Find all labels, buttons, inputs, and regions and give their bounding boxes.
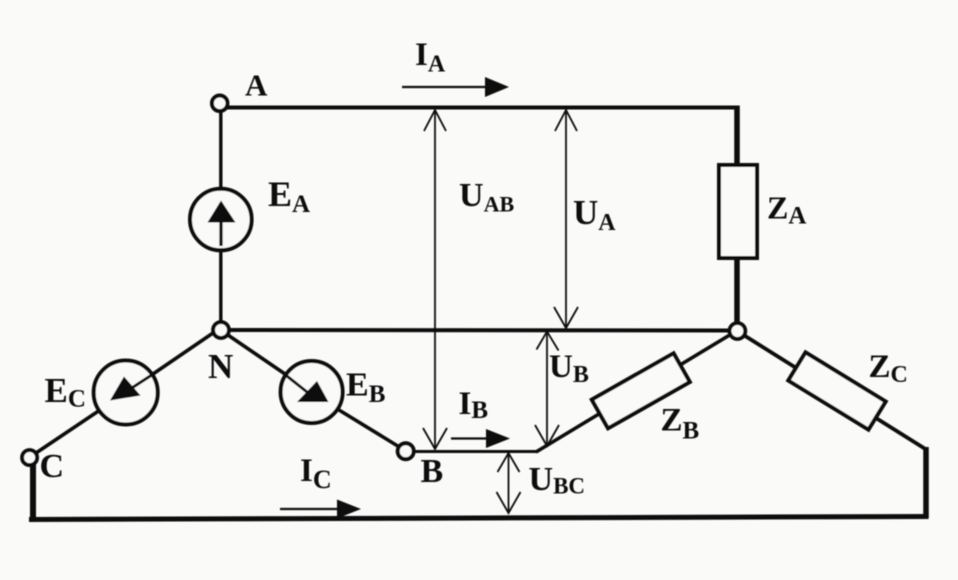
wire A down to E_A [219,110,222,192]
wire bottom [29,517,929,520]
wire E_A down to N [219,250,222,324]
wire top A to right corner [225,106,739,110]
node N [213,322,229,338]
terminal A [212,96,228,112]
terminal B [398,443,414,459]
voltage arrow U_AB [423,110,447,449]
wire Z_A to right node [734,258,740,325]
wire right node to corner diagonal [742,334,927,450]
wire B to right node diagonal [536,333,733,452]
current arrow I_C [280,508,340,510]
wire N to E_B [225,333,285,374]
current arrow I_A [402,86,488,88]
EMF source E_C [94,361,158,425]
impedance Z_A [719,165,757,258]
wire E_B to B [339,410,401,448]
voltage arrow U_BC [497,453,521,513]
wire C down to bottom [30,463,36,521]
EMF source E_B [281,361,343,423]
svg-text:B: B [421,453,444,490]
impedance Z_B [592,353,690,428]
right node [730,323,746,339]
wire E_C to C [36,411,99,453]
EMF source E_A [190,189,252,251]
wire right corner down to Z_A [734,106,740,168]
current arrow I_B [451,437,488,439]
wire N to E_C [153,333,213,374]
wire middle N to right node [226,328,731,333]
impedance Z_C [788,352,885,429]
svg-text:N: N [208,347,233,386]
wire right corner down [923,447,929,518]
svg-text:C: C [40,448,65,485]
wire B to right [414,450,538,453]
svg-text:A: A [245,68,268,103]
voltage arrow U_A [554,110,578,328]
voltage arrow U_B [535,332,559,447]
terminal C [22,450,37,465]
